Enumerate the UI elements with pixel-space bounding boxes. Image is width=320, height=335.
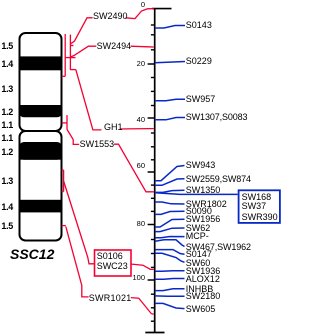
bracket V1 bottom tick — [62, 75, 65, 77]
bracket V1 (SW2490 span) — [64, 34, 66, 76]
scale number 40 — [124, 115, 145, 124]
label SW605 — [186, 304, 216, 315]
red box around S0106/SWC23 — [95, 250, 132, 276]
scale number 100 — [124, 273, 145, 282]
SW1553 left connector — [67, 129, 79, 144]
linkage scale main line — [154, 9, 156, 333]
bracket V2 bottom tick — [70, 69, 75, 71]
line SW943 — [155, 166, 185, 181]
line SW62 — [155, 228, 185, 232]
label SW2559,SW874 — [186, 174, 251, 185]
SW2490 right connector to scale top — [126, 9, 154, 19]
band label q1.3 — [0, 176, 13, 186]
SW2494 right connector — [131, 45, 154, 48]
scale top cap (0 cM) — [152, 8, 172, 10]
chromosome q-arm outline — [20, 131, 62, 241]
band label p1.3 — [0, 84, 13, 94]
band label q1.5 — [0, 221, 13, 231]
scale number 60 — [124, 161, 145, 170]
bracket V2 mid tick — [70, 45, 73, 47]
label SWR1802 — [186, 199, 227, 210]
major tick 60 — [148, 171, 155, 173]
label SW60 — [186, 258, 211, 269]
label S0106 — [97, 251, 123, 262]
line SW605 — [155, 303, 185, 308]
line S0229 — [155, 62, 185, 63]
band p1.2 (black, rounded bottom) — [19, 105, 62, 117]
label SW1307,S0083 — [186, 112, 248, 123]
label MCP- — [186, 231, 209, 242]
label SW1350 — [186, 185, 221, 196]
bracket V5 (SW1553 span) — [66, 115, 68, 129]
bracket V6 (S0106/SWC23 span) — [63, 170, 65, 192]
label SW1956 — [186, 214, 221, 225]
label ALOX12 — [186, 274, 220, 285]
label SWR1021 — [89, 293, 132, 304]
bracket V6 top tick — [62, 169, 64, 171]
label S0143 — [186, 20, 212, 31]
band label q1.2 — [0, 147, 13, 157]
band label p1.4 — [0, 59, 13, 69]
major tick 20 — [148, 63, 155, 65]
line ALOX12 — [155, 278, 185, 281]
line to boxed markers SW168/SW37/SWR390 — [155, 193, 238, 195]
bracket V2 (SW2494/GH1 span) — [69, 35, 71, 70]
line MCP- — [155, 237, 185, 238]
line SW1936 — [155, 270, 185, 273]
band p1.4 (black) — [19, 56, 62, 70]
label SW37 (boxed) — [242, 201, 267, 212]
band q1.4 (black) — [19, 200, 62, 213]
SW1553 right connector to scale — [114, 144, 154, 192]
line SW1956 — [155, 219, 185, 227]
label SSC12 — [10, 246, 54, 262]
scale number 0 — [124, 0, 145, 9]
label SWR390 (boxed) — [242, 212, 278, 223]
label SW1553 — [80, 139, 115, 150]
line SW2180 — [155, 295, 185, 297]
label INHBB — [186, 284, 214, 295]
band label p1.2 — [0, 107, 13, 117]
major tick 40 — [148, 117, 155, 119]
bracket V5 tick to chromosome — [62, 122, 67, 124]
line SW2559,SW874 — [155, 179, 185, 186]
GH1 right connector — [120, 128, 154, 130]
line SW1350 — [155, 190, 185, 192]
line SW957 — [155, 99, 185, 101]
blue box around SW168/SW37/SWR390 — [239, 190, 280, 223]
band label q1.1 — [0, 133, 13, 143]
line SWR1802 — [155, 202, 185, 204]
label SW2180 — [186, 291, 221, 302]
label SW2494 — [97, 41, 132, 52]
label S0229 — [186, 56, 212, 67]
line SW60 — [155, 253, 185, 262]
band label q1.4 — [0, 202, 13, 212]
line SW467,SW1962 — [155, 240, 185, 247]
major tick 80 — [148, 224, 155, 226]
chromosome p-arm outline — [20, 33, 62, 131]
bracket V2 cross tick — [65, 57, 75, 59]
band q1.2 (black, rounded top) — [19, 142, 62, 160]
label SW467,SW1962 — [186, 242, 251, 253]
line S0143 — [155, 26, 185, 29]
line INHBB — [155, 289, 185, 291]
band label p1.5 — [0, 41, 13, 51]
S0106/SWC23 right connector to scale — [132, 264, 154, 269]
minor ticks — [151, 25, 155, 321]
SWR1021 right connector to scale — [131, 298, 154, 315]
line SW1307,S0083 — [155, 118, 185, 120]
label S0090 — [186, 206, 212, 217]
major tick 100 — [148, 279, 155, 281]
band label p1.1 — [0, 120, 13, 130]
label GH1 — [104, 122, 123, 133]
label SW62 — [186, 223, 211, 234]
SWR1021 tick to chromosome — [62, 225, 66, 227]
GH1 left connector (long diagonal) — [76, 70, 102, 130]
label SWC23 — [97, 261, 128, 272]
SW2494 left connector — [70, 46, 96, 57]
label SW2490 — [93, 11, 128, 22]
scale number 20 — [124, 59, 145, 68]
label SW168 (boxed) — [242, 192, 272, 203]
line S0090 — [155, 211, 185, 214]
scale number 80 — [124, 219, 145, 228]
bracket V6 bottom tick — [62, 191, 64, 193]
label SW1936 — [186, 266, 221, 277]
SWR1021 left connector — [66, 227, 89, 297]
scale bottom cap — [145, 332, 164, 334]
blue marker connector lines — [155, 26, 238, 309]
red physical-map lines — [62, 9, 154, 315]
SW2490 left connector — [70, 18, 92, 44]
label SW943 — [186, 160, 216, 171]
S0106/SWC23 left connector — [64, 181, 94, 264]
line S0147 — [155, 250, 185, 255]
label S0147 — [186, 249, 212, 260]
label SW957 — [186, 94, 216, 105]
